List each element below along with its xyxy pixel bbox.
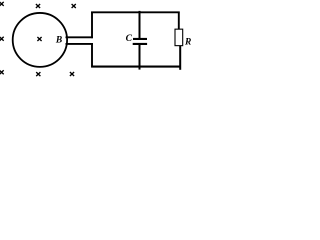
svg-text:B: B — [55, 36, 62, 46]
svg-text:C: C — [126, 34, 133, 44]
svg-text:R: R — [184, 38, 191, 48]
